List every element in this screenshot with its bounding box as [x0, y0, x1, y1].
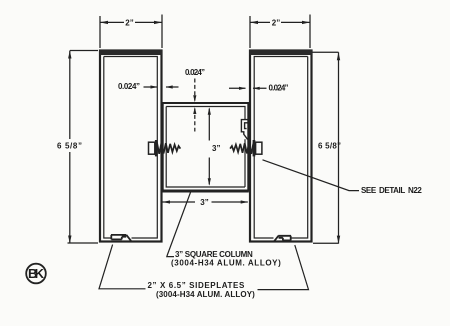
left sideplate top wall thick [100, 50, 163, 55]
left sideplate outer [100, 51, 162, 242]
right sideplate bottom notch [274, 236, 291, 242]
svg-text:BK: BK [28, 266, 45, 281]
arrowheads 3in vertical [208, 107, 211, 115]
dimension 0.024 center: lower tail line (dashed) [194, 109, 196, 132]
dimension 0.024 right: arrow lines [229, 87, 267, 89]
dimension 6 5/8 left: dim line [69, 51, 71, 244]
left screw head [149, 142, 155, 154]
svg-text:2”: 2” [272, 19, 280, 28]
leader to SEE DETAIL N22 [263, 160, 360, 191]
svg-text:0.024”: 0.024” [269, 84, 289, 93]
dimension 0.024 left: arrow lines [144, 86, 179, 88]
right sideplate outer [250, 51, 312, 242]
arrowheads 0.024 right [239, 87, 246, 90]
arrowheads 3in bottom [163, 200, 170, 203]
svg-text:2” X 6.5” SIDEPLATES: 2” X 6.5” SIDEPLATES [148, 281, 245, 290]
svg-text:(3004-H34 ALUM. ALLOY): (3004-H34 ALUM. ALLOY) [156, 290, 255, 299]
square column outer [163, 103, 249, 191]
dimension 6 5/8 right: dim line [338, 52, 340, 243]
svg-text:6 5/8”: 6 5/8” [318, 142, 341, 151]
dimension 2in left: extension lines [100, 15, 162, 49]
left screw washer [155, 140, 158, 156]
svg-text:(3004-H34 ALUM. ALLOY): (3004-H34 ALUM. ALLOY) [171, 259, 281, 268]
arrowheads 6 5/8 right [337, 52, 340, 60]
right screw threads [230, 143, 253, 154]
BK balloon circle [26, 264, 46, 284]
arrowheads 6 5/8 left [68, 51, 71, 59]
leader to sideplates label right [258, 245, 309, 290]
square column inner [166, 107, 245, 188]
svg-text:6 5/8”: 6 5/8” [57, 142, 82, 151]
dimension 2in left: dim line [100, 21, 162, 23]
svg-text:3”: 3” [200, 198, 208, 207]
dimension 3in vertical: dim line [208, 109, 210, 185]
arrowheads 0.024 left [151, 85, 158, 88]
dimension 2in right: extension lines [250, 15, 310, 49]
dimension 0.024 center: upper arrow line (dashed) [194, 79, 196, 101]
left sideplate bottom notch [111, 235, 131, 241]
arrowheads 2in right [250, 21, 258, 24]
right sideplate top wall thick [250, 50, 313, 55]
arrowheads 2in left [100, 21, 108, 24]
dimension 3in bottom: dim line [161, 201, 248, 203]
left screw threads [157, 143, 180, 154]
arrowheads 0.024 center [193, 95, 196, 102]
column snap-lock hook detail [241, 120, 248, 140]
dimension 6 5/8 right: extension lines [313, 52, 339, 243]
dimension 2in right: dim line [250, 21, 310, 23]
svg-text:0.024”: 0.024” [185, 68, 205, 77]
dimension 6 5/8 left: extension lines [68, 51, 99, 244]
svg-text:0.024”: 0.024” [118, 82, 140, 91]
right sideplate inner [254, 57, 308, 239]
leader to column label [167, 191, 191, 257]
right screw head [256, 142, 262, 154]
right screw washer [253, 140, 256, 156]
left sideplate inner [104, 57, 158, 239]
leader to sideplates label left [99, 245, 146, 289]
svg-text:2”: 2” [125, 19, 133, 28]
svg-text:SEE DETAIL N22: SEE DETAIL N22 [361, 186, 422, 195]
svg-text:3”: 3” [212, 144, 220, 153]
